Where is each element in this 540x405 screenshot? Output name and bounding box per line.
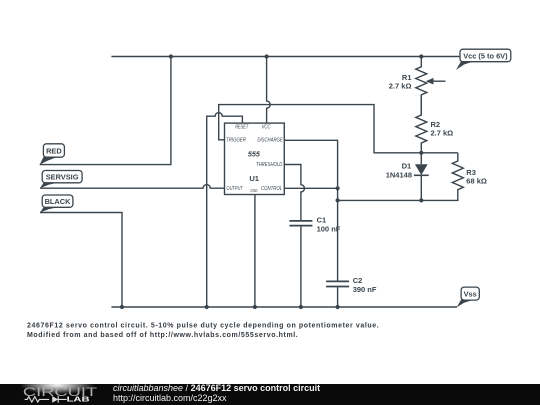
- svg-text:LAB: LAB: [67, 396, 90, 403]
- wire: node to R3 top: [421, 152, 458, 154]
- svg-text:Modified from and based off of: Modified from and based off of http://ww…: [27, 332, 298, 339]
- wire: DISCHARGE pin to C2 branch: [284, 140, 337, 281]
- svg-text:68 kΩ: 68 kΩ: [466, 177, 487, 186]
- junction: C2 / bottom rail: [336, 305, 340, 309]
- svg-text:RED: RED: [46, 147, 62, 156]
- svg-text:100 nF: 100 nF: [317, 224, 341, 233]
- svg-text:VCC: VCC: [262, 124, 272, 130]
- resistor R1 (potentiometer body): [416, 57, 427, 95]
- footer bar: [0, 384, 540, 405]
- svg-text:U1: U1: [249, 174, 259, 183]
- svg-text:DISCHARGE: DISCHARGE: [257, 138, 282, 144]
- svg-text:2.7 kΩ: 2.7 kΩ: [431, 128, 454, 137]
- flag Vss: [457, 287, 480, 307]
- wire: bottom Vss rail: [111, 306, 457, 308]
- wire: D1/R3 bottom node to C2 branch: [338, 199, 422, 201]
- junction: U1 VCC riser / top rail: [265, 54, 269, 58]
- capacitor C1: [289, 221, 312, 226]
- svg-text:C2: C2: [353, 276, 363, 285]
- wire: SERVSIG flag to OUTPUT pin (hops over reset drop): [40, 185, 225, 189]
- wire: TRIGGER pin to R2/D1 node: [219, 105, 422, 153]
- svg-text:1N4148: 1N4148: [386, 171, 412, 180]
- svg-text:RESET: RESET: [235, 124, 249, 130]
- junction: CONTROL / discharge drop: [336, 186, 340, 190]
- capacitor C2: [326, 281, 349, 286]
- svg-text:24676F12 servo control circuit: 24676F12 servo control circuit. 5-10% pu…: [27, 322, 379, 329]
- svg-text:Vcc (5 to 6V): Vcc (5 to 6V): [463, 51, 508, 60]
- junction: GND pin / bottom rail: [253, 305, 257, 309]
- flag SERVSIG: [40, 171, 82, 189]
- wire: RESET pin to ground rail (hops over trigger wire): [207, 113, 243, 307]
- wire: top Vcc rail: [111, 56, 459, 58]
- svg-text:C1: C1: [317, 215, 327, 224]
- IC U1 555 body: [225, 123, 285, 194]
- junction: BLACK drop / bottom rail: [120, 305, 124, 309]
- svg-text:GND: GND: [250, 188, 258, 193]
- junction: R2 / D1 / R3 / trigger: [419, 151, 423, 155]
- svg-text:THRESHOLD: THRESHOLD: [256, 162, 282, 168]
- svg-text:555: 555: [248, 150, 261, 159]
- junction: reset drop / bottom rail: [205, 305, 209, 309]
- resistor R3: [421, 153, 463, 201]
- flag Vcc (5 to 6V): [456, 49, 511, 70]
- wire: BLACK flag down to ground rail: [40, 213, 122, 308]
- wire: R1 to R2: [420, 95, 422, 116]
- wire: RED flag to top rail: [40, 57, 171, 165]
- wire: GND pin to bottom rail: [254, 195, 256, 308]
- CircuitLab logo: [22, 380, 102, 405]
- flag RED: [40, 144, 65, 165]
- svg-text:390 nF: 390 nF: [353, 285, 377, 294]
- logo diode: [52, 396, 58, 403]
- junction: D1 / R3 bottom: [419, 198, 423, 202]
- svg-text:D1: D1: [402, 162, 412, 171]
- junction: C1 / bottom rail: [299, 305, 303, 309]
- wire: THRESHOLD pin to C1 (hops over control wire): [284, 165, 304, 221]
- logo resistor squiggle: [25, 397, 50, 402]
- diode D1: [420, 153, 422, 164]
- svg-text:Vss: Vss: [464, 290, 477, 299]
- svg-text:TRIGGER: TRIGGER: [226, 138, 246, 144]
- wire: U1 VCC pin riser (hops over trigger wire): [267, 57, 271, 124]
- svg-text:2.7 kΩ: 2.7 kΩ: [389, 81, 412, 90]
- resistor R2: [416, 95, 427, 153]
- flag BLACK: [40, 195, 73, 213]
- svg-text:OUTPUT: OUTPUT: [227, 186, 244, 192]
- junction: R1 / top rail: [419, 54, 423, 58]
- junction: RED riser / top rail: [169, 54, 173, 58]
- potentiometer R1 wiper arrow: [433, 80, 446, 82]
- svg-text:BLACK: BLACK: [45, 197, 72, 206]
- svg-text:CONTROL: CONTROL: [261, 186, 282, 192]
- junction: D1-R3 wire / discharge drop: [336, 198, 340, 202]
- svg-text:SERVSIG: SERVSIG: [46, 173, 79, 182]
- wire: CONTROL pin to discharge drop: [284, 187, 337, 189]
